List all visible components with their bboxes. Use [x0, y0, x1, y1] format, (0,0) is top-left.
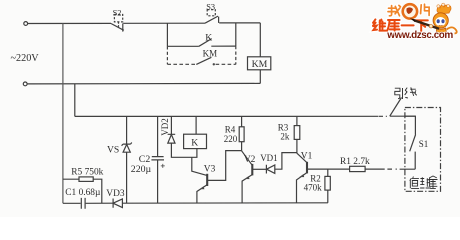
diode VD1	[266, 165, 274, 174]
relay coil KM box	[248, 57, 271, 70]
resistor R3 top lead	[296, 116, 298, 125]
switch S1 blade	[410, 135, 416, 152]
lower circuit top rail	[75, 115, 378, 117]
transistor V1 base wire	[307, 168, 350, 170]
diode VD2	[168, 134, 176, 143]
resistor R1 box	[350, 166, 366, 171]
resistor R2 top lead	[327, 169, 329, 176]
transistor V1 emitter	[297, 173, 307, 203]
switch S3 blade	[205, 16, 218, 23]
svg-text:R4: R4	[225, 124, 236, 134]
svg-text:VS: VS	[107, 144, 119, 155]
wire drop to K/KM contact rows	[166, 23, 168, 46]
wire KM coil top riser	[259, 23, 261, 57]
watermark brush	[415, 21, 440, 29]
wire dash-dot lead-in to duty room	[379, 115, 416, 117]
contact K row right wire	[211, 45, 236, 47]
svg-text:~220V: ~220V	[11, 53, 40, 64]
svg-text:K: K	[205, 33, 212, 44]
transistor V1 collector slant	[297, 153, 307, 162]
switch S1 top lead	[405, 116, 416, 134]
svg-text:KM: KM	[203, 49, 218, 59]
transistor V2 collector slant	[242, 151, 252, 165]
wire KM coil bottom riser	[259, 70, 261, 84]
contact KM pivot dot	[213, 63, 215, 65]
zener VS branch wire	[126, 116, 128, 203]
resistor R2 box	[325, 176, 330, 190]
contact KM row left dashed wire	[167, 63, 196, 65]
transistor V1 base bar	[306, 162, 308, 174]
resistor R5 right wire and drop	[93, 179, 102, 203]
contact K blade	[199, 39, 212, 47]
switch S1 lower contact	[414, 152, 416, 170]
svg-text:R1 2.7k: R1 2.7k	[340, 157, 370, 167]
terminal T1	[24, 22, 28, 26]
transistor V2 base wire to VD1	[252, 168, 266, 170]
svg-text:220: 220	[224, 134, 238, 144]
switch S2 button link	[118, 22, 120, 27]
contact KM row right dashed wire	[216, 63, 236, 65]
transistor V2 base bar	[251, 164, 253, 176]
resistor R2 bottom lead	[327, 190, 329, 203]
resistor R4 bottom lead	[241, 142, 243, 151]
svg-text:470k: 470k	[304, 183, 323, 193]
zener VS symbol	[122, 143, 132, 153]
capacitor C2 branch wire bottom	[157, 160, 159, 203]
wire right vertical to L1	[235, 23, 237, 46]
capacitor C1 plates	[81, 198, 85, 209]
watermark circle logo	[403, 4, 417, 18]
relay coil K box	[184, 134, 207, 148]
capacitor C2 plus sign	[161, 164, 165, 168]
watermark 维库一下 glyphs	[373, 19, 428, 31]
transistor V3 collector wire	[192, 157, 207, 175]
duty room dash-dot box	[405, 108, 441, 192]
wire L1 from S3 to KM coil corner	[219, 22, 260, 24]
svg-text:VD3: VD3	[106, 189, 125, 199]
contact KM blade	[196, 57, 211, 64]
watermark 片 glyph	[421, 4, 430, 15]
switch S3 right contact tick	[218, 17, 220, 23]
watermark mascot	[433, 3, 457, 34]
wire K coil top lead	[195, 116, 197, 134]
wire VD2 anode to K coil jog	[171, 143, 197, 157]
bottom rail mid segment	[86, 202, 113, 204]
wire R1 to duty room	[365, 168, 415, 170]
wire top AC line L1	[28, 22, 111, 24]
transistor V1 emitter arrow	[299, 174, 304, 177]
svg-text:V3: V3	[204, 164, 216, 174]
transistor V2 emitter	[242, 175, 252, 203]
label 引线 (lead wire)	[395, 87, 417, 99]
svg-text:K: K	[191, 137, 198, 148]
transistor V3 base bar	[206, 174, 208, 186]
wire drop from L1 to bottom rail	[62, 23, 64, 203]
svg-text:220µ: 220µ	[131, 164, 152, 175]
resistor R4 top lead	[241, 116, 243, 127]
capacitor C2 plates	[151, 157, 164, 160]
svg-text:S3: S3	[206, 2, 215, 11]
switch S3 button box (dashed)	[207, 10, 215, 16]
svg-text:S1: S1	[419, 139, 429, 149]
transistor V3 emitter	[197, 185, 207, 204]
transistor V3 emitter arrow	[200, 186, 205, 189]
svg-text:C1 0.68µ: C1 0.68µ	[65, 188, 101, 198]
resistor R5 branch wire	[63, 178, 79, 180]
resistor R3 bottom lead	[296, 139, 298, 153]
resistor R3 box	[294, 126, 300, 140]
transistor V2 emitter arrow	[245, 176, 250, 179]
switch S2 right contact tick	[122, 23, 124, 31]
wire drop from L2 to lower top rail	[74, 84, 76, 117]
wire VD1 anode riser to V1 collector junction	[275, 153, 297, 170]
wire L1 between S2 and S3	[123, 22, 205, 24]
resistor R5 box	[79, 177, 93, 182]
svg-text:S2: S2	[113, 9, 122, 18]
wire V3 base to R4 junction staircase	[207, 151, 241, 181]
terminal T2	[23, 82, 27, 86]
svg-text:R5 750k: R5 750k	[71, 167, 103, 177]
switch S2 blade	[111, 24, 124, 31]
switch S2 button box (dashed)	[114, 15, 122, 22]
wire dashed continuation to KM row	[166, 46, 168, 64]
diode VD2 branch wire top	[170, 116, 172, 134]
svg-text:V2: V2	[244, 155, 256, 165]
lead pointer diagonal	[390, 98, 402, 117]
svg-text:VD2: VD2	[160, 118, 170, 136]
label 值班室 (duty room)	[410, 176, 438, 188]
svg-text:www.dzsc.com: www.dzsc.com	[386, 30, 453, 41]
capacitor C2 branch wire top	[157, 116, 159, 156]
bottom rail left segment	[63, 202, 81, 204]
bottom rail right segment	[122, 202, 328, 204]
resistor R4 box	[239, 127, 244, 142]
svg-text:VD1: VD1	[260, 153, 278, 163]
watermark 我 glyph	[388, 5, 401, 15]
wire dashed right vertical to KM row	[235, 46, 237, 64]
diode VD3	[113, 199, 122, 208]
wire AC line L2	[27, 82, 260, 85]
svg-text:2k: 2k	[280, 131, 290, 141]
svg-text:V1: V1	[301, 151, 313, 161]
svg-text:KM: KM	[252, 59, 268, 70]
contact K row left wire	[167, 45, 199, 47]
